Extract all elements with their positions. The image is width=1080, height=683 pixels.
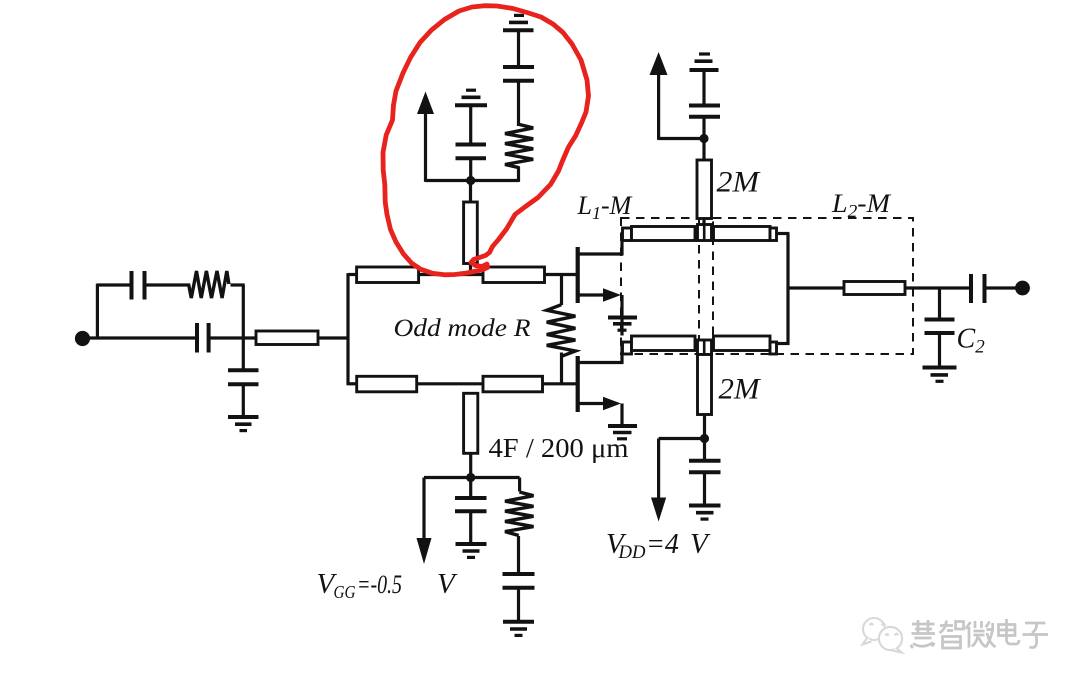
svg-text:GG: GG: [334, 582, 356, 602]
svg-text:=-0.5: =-0.5: [357, 569, 402, 599]
svg-text:DD: DD: [618, 542, 646, 563]
svg-text:=4: =4: [646, 529, 679, 560]
svg-text:2M: 2M: [717, 167, 761, 199]
svg-text:2M: 2M: [719, 373, 762, 406]
svg-text:L1-M: L1-M: [577, 191, 633, 223]
svg-text:4F / 200 μm: 4F / 200 μm: [489, 433, 629, 463]
svg-text:Odd mode R: Odd mode R: [394, 313, 531, 342]
svg-text:L2-M: L2-M: [831, 189, 892, 221]
